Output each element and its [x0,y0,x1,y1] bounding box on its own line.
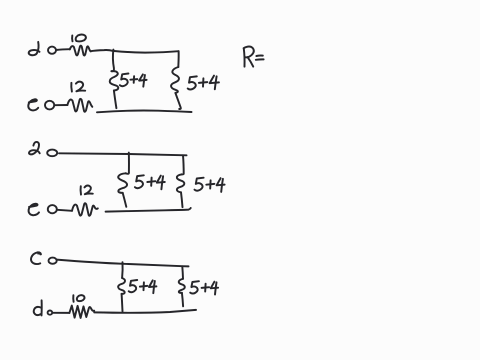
value label 10 [71,36,73,42]
terminal label e [28,99,38,110]
terminal label d [29,42,40,55]
resistor 5+4 right (vertical squiggle) [179,279,185,293]
resistor 12 (horizontal zigzag) [67,99,92,112]
value label 5+4 (right) [188,76,197,89]
lead: top rail to resistor 5+4 left [111,50,114,72]
resistor 5+4 left (vertical squiggle) [110,71,119,90]
wire: bottom rail circuit 1 [97,111,192,113]
wire: top rail circuit 2 [59,153,187,155]
lead: top rail to resistor 5+4 left [126,153,129,174]
wire: top rail circuit 3 [57,260,189,267]
lead: resistor 5+4 right to bottom rail [175,93,180,109]
lead: top rail to resistor 5+4 right [181,266,184,278]
value label 5+4 (left) [135,175,144,188]
resistor 5+4 left (vertical squiggle) [118,173,127,193]
value label 5+4 (right) [190,281,199,293]
lead: top rail to resistor 5+4 right [177,51,179,67]
lead: resistor 5+4 left to bottom rail [114,91,117,109]
lead: resistor 5+4 left to bottom rail [121,294,124,311]
terminal label d [34,307,41,315]
terminal label e [29,204,39,215]
wire: top rail circuit 1 [91,50,179,53]
resistor 5+4 right (vertical squiggle) [177,174,184,192]
lead: top rail to resistor 5+4 right [182,155,184,174]
wire: node e to resistor 12 [54,104,67,106]
terminal node e [45,101,54,110]
wire: node d to resistor 10 [52,312,69,314]
lead: resistor 5+4 right to bottom rail [181,192,183,207]
terminal label a [29,142,40,154]
value label 5+4 (right) [195,178,204,191]
value label 10 [72,295,74,302]
terminal node e [48,205,57,213]
terminal node a [47,150,57,157]
resistor 10 (horizontal zigzag) [69,306,94,318]
terminal node d [48,47,56,54]
wire: node e to resistor 12 [57,210,72,211]
wire: bottom rail circuit 3 [94,310,196,313]
value label 12 [80,186,82,194]
resistor 10 (horizontal zigzag) [70,46,91,56]
terminal node d [48,311,53,315]
value label 5+4 (left) [129,280,138,292]
lead: top rail to resistor 5+4 left [121,262,124,278]
value label 5+4 (left) [120,74,128,87]
wire: node d to resistor 10 [56,48,70,51]
value label 12 [70,83,73,92]
resistor 12 (horizontal zigzag) [72,203,98,216]
wire: bottom rail circuit 2 [106,208,191,212]
lead: resistor 5+4 right to bottom rail [182,293,183,307]
lead: resistor 5+4 left to bottom rail [123,193,127,207]
resistor 5+4 right (vertical squiggle) [171,67,179,93]
label R= [243,49,246,67]
terminal label c [31,252,41,264]
resistor 5+4 left (vertical squiggle) [118,278,125,294]
terminal node c [49,258,57,264]
